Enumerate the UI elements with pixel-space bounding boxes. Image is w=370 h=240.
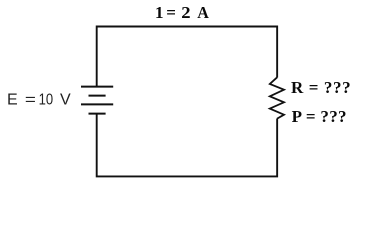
wire: top conductor (battery + terminal, up and across to resistor top) — [97, 27, 277, 88]
svg-text:10: 10 — [39, 92, 54, 109]
battery E: long plate 3 — [81, 103, 113, 105]
battery E: short plate 2 — [89, 95, 106, 97]
svg-text:2: 2 — [181, 3, 190, 22]
svg-text:E: E — [7, 92, 18, 109]
svg-text:R = ???: R = ??? — [291, 78, 351, 97]
svg-text:A: A — [197, 3, 209, 22]
wire: bottom conductor (battery - terminal, down and across to resistor bottom) — [97, 114, 277, 177]
svg-text:=: = — [166, 3, 176, 22]
battery E: short plate 4 (bottom) — [89, 113, 106, 115]
svg-text:1: 1 — [155, 3, 164, 22]
svg-text:P = ???: P = ??? — [292, 107, 347, 126]
battery E: long plate 1 (top) — [81, 86, 113, 88]
svg-text:V: V — [60, 92, 71, 109]
label: current "1 = 2 A" (top) — [155, 3, 209, 22]
resistor R: zigzag body — [270, 77, 284, 118]
svg-text:=: = — [25, 92, 36, 109]
label: source voltage "E = 10 V" (left) — [7, 92, 71, 109]
